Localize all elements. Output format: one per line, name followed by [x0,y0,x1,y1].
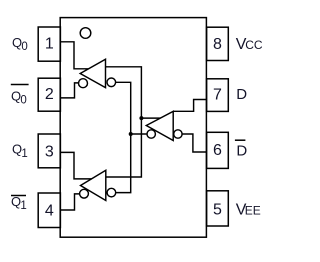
wire U1b bubble output to bus A [131,133,147,135]
label Q0-bar (pin 2) [11,84,29,86]
gate U1c inverted-output bubble [80,189,89,198]
svg-text:5: 5 [213,201,222,218]
svg-text:8: 8 [213,36,222,53]
gate U1a inverted-output bubble [79,79,88,88]
svg-text:6: 6 [213,142,222,159]
pin 5 box [207,191,229,226]
buffer gate U1c (bottom, outputs to Q1/Q1-bar) [81,170,106,200]
wire bus A: U1a bubble input / U1b bubble output / U1c bubble input [116,82,131,192]
pin 8 box [207,27,229,60]
svg-text:0: 0 [21,41,27,53]
pin 2 box [38,78,60,111]
buffer gate U1a (top, outputs to Q0/Q0-bar) [80,59,105,87]
svg-text:1: 1 [21,148,27,160]
pin 1 indicator circle [80,28,91,39]
svg-text:2: 2 [45,86,54,103]
gate U1a inverting-input bubble [107,78,116,87]
wire pin3 to U1c output [60,152,91,179]
pin 3 box [38,134,60,168]
svg-text:0: 0 [20,94,26,106]
buffer gate U1b (middle, D input buffer) [146,111,173,140]
wire pin7 (D) to U1b input [173,100,206,112]
pin 6 box [207,132,229,168]
svg-text:1: 1 [20,200,26,212]
gate U1b inverting-input bubble [174,130,182,138]
junction dot on bus B [139,116,143,120]
wire pin4 to U1c bubble output [60,194,79,210]
svg-text:3: 3 [45,144,54,161]
wire pin1 to U1a output [60,42,89,69]
junction dot on bus A [129,132,133,136]
svg-text:CC: CC [245,38,263,52]
svg-text:7: 7 [213,87,222,104]
wire pin2 to U1a bubble output [60,83,78,98]
wire bus B: U1a input / U1b output / U1c input [106,67,142,177]
pin 7 box [207,79,229,112]
pin 4 box [38,193,60,228]
svg-text:D: D [236,142,247,159]
svg-text:EE: EE [245,204,261,218]
svg-text:D: D [236,86,247,103]
label D-bar (pin 6) [235,139,246,141]
pin 1 box [38,27,60,61]
IC body U1 [60,18,206,238]
svg-text:4: 4 [45,203,54,220]
wire U1b output to bus B [141,117,160,119]
gate U1c inverting-input bubble [107,188,116,197]
svg-text:1: 1 [45,36,54,53]
wire pin6 (D-bar) to U1b bubble input [182,134,207,152]
label Q1-bar (pin 4) [11,195,26,197]
gate U1b inverted-output bubble [147,130,155,138]
